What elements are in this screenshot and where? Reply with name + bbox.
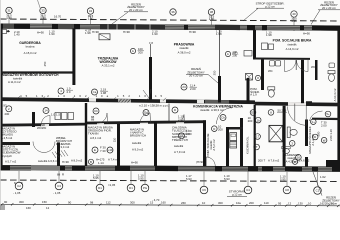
toilet 1 (wc left) [268,87,275,97]
axis circle 31 [6,7,12,13]
big door swing (bath) [288,106,307,126]
svg-text:A 11,0 m2: A 11,0 m2 [8,80,21,84]
axis drop line C6 [203,172,205,187]
magazyn estet label [1,145,21,158]
svg-text:BRUDNYCH: BRUDNYCH [130,133,146,137]
svg-text:160: 160 [161,201,166,205]
door tag circle 14 [43,108,60,117]
right exterior wall [337,26,340,172]
corridor north wall window run [205,100,229,104]
svg-text:C8: C8 [285,188,289,192]
svg-text:Ch: Ch [180,134,184,138]
kuchnia north wall [226,127,243,130]
wc labels [268,65,316,73]
corner wall piece bottom right [326,160,340,167]
top wall dark seg 58-74 [58,24,74,29]
svg-text:A 15,0 m2: A 15,0 m2 [24,51,37,55]
svg-text:10: 10 [308,201,312,205]
tag circle E2 [107,147,113,153]
under-wall text 1.10/1.98 (x219) [216,30,222,37]
svg-text:5.93: 5.93 [224,177,230,181]
stray scan line [38,0,41,9]
interior wall D (x254.5 upper) [253,30,256,60]
axis tick line 33 [42,16,44,29]
lower room wall y142 [0,142,30,145]
svg-text:20 x 20 cm: 20 x 20 cm [129,8,144,12]
top wall window midline 2 [0,27,340,29]
svg-text:A 5,2 m2: A 5,2 m2 [212,139,216,151]
wc sink right [329,63,335,68]
axis drop line C2 [18,171,20,182]
svg-text:12: 12 [46,206,50,210]
svg-text:350: 350 [213,70,217,75]
svg-text:H=90: H=90 [62,160,69,164]
magazyn scierek label [307,126,315,153]
room label GARDEROBA [19,41,41,55]
svg-text:A 7,6 m2: A 7,6 m2 [268,158,280,162]
interior wall B (x150) upper thin [150,44,152,57]
bottom axis circle D2 [127,184,135,192]
bottom exterior wall base band [0,165,340,171]
svg-text:H=90: H=90 [303,32,310,36]
klatka door arc [310,111,323,121]
svg-text:świetlik A 38,3 m2: świetlik A 38,3 m2 [200,108,224,112]
svg-text:200: 200 [5,112,10,116]
svg-text:98: 98 [90,200,94,204]
door tag circle Cb [91,108,99,122]
svg-text:R: R [62,172,64,176]
top exterior wall base band [0,24,340,31]
top wall pier 4 [74,24,80,29]
dim text under axis 34 [88,14,94,20]
corridor south wall mid [85,120,206,124]
svg-text:± 8: ± 8 [149,41,153,45]
top wall pier 5 [184,25,188,30]
svg-text:110: 110 [264,201,269,205]
room label FRESOWNIA [98,56,119,67]
svg-text:34: 34 [89,9,93,13]
door swing at wall B bottom [143,89,151,98]
svg-text:g 12 cm: g 12 cm [232,193,243,197]
svg-text:- 1,05: - 1,05 [53,191,61,195]
svg-text:160: 160 [26,206,31,210]
svg-text:112: 112 [106,201,111,205]
under-wall text 4.10/1.98 [85,29,91,36]
door tag circle Ch [0,0,1,1]
svg-text:200 T: 200 T [258,158,265,162]
bottom axis circle C2 [15,182,23,190]
bottom wall window midline [0,167,340,168]
label rdzen zelbetowy (mid) [186,67,218,83]
kuchnia wall x227.5 [226,127,229,166]
axis tick line 31 [8,16,10,29]
tag circle 8b [255,75,260,80]
top wall strip window dark run [100,24,165,30]
svg-text:MAGAZYN WYROBÓW GOTOWYCH: MAGAZYN WYROBÓW GOTOWYCH [2,72,59,77]
room label PRASOWNIA [174,42,195,54]
room label CHLODNIA [172,125,190,153]
sill text pair x140 [138,174,144,181]
bottom wall pier 6 [215,166,222,171]
svg-text:130: 130 [298,201,303,205]
svg-text:(H=90): (H=90) [196,160,205,164]
dim text under axis 33 [40,14,46,20]
svg-text:H=90: H=90 [131,160,138,164]
svg-text:1.93: 1.93 [1,104,7,108]
bottom wall pier 3 [72,166,85,171]
corridor north wall door gap 2 [288,102,306,106]
tag circle 17 [255,134,261,140]
svg-text:H=90: H=90 [37,31,44,35]
bottom wall pier 11 [332,167,340,172]
room label MAGAZYN CZYSTEGO [1,126,17,139]
lower wall x255 (kuchnia) [254,105,256,167]
svg-text:110: 110 [113,137,117,142]
door swing pom soc [206,157,215,166]
svg-text:D1: D1 [251,111,255,115]
svg-text:20 x 20 cm: 20 x 20 cm [322,6,337,10]
tag circle D5 [212,124,224,131]
axis drop line C4 [247,172,249,187]
svg-text:31: 31 [7,9,11,13]
svg-text:1b: 1b [257,118,261,122]
svg-text:5.93: 5.93 [186,177,192,181]
tag circle 1b [255,117,261,123]
axis circle 38 [208,9,214,15]
svg-text:WC: WC [268,69,273,73]
svg-text:ND: ND [41,123,45,127]
svg-text:A 1,9: A 1,9 [250,93,257,97]
svg-text:5.95: 5.95 [93,176,99,180]
top wall upper edge line [0,24,340,26]
top dashed axis line [0,19,340,21]
bottom axis circle D3 [141,184,149,192]
dim text near kuchnia wall [248,116,253,123]
corridor partition line x169 [168,104,170,122]
wc wall (x302.5) [301,60,304,103]
right rooms wall y118.5 [312,118,340,121]
svg-text:2.00: 2.00 [186,132,192,136]
tag circle 16 [296,155,302,161]
door tag circle A2 200 [225,50,237,57]
svg-text:Cb: Cb [94,109,98,113]
axis circle 34 [87,8,93,14]
top wall dark run 3 (right corner) [312,25,340,30]
sill text pair x320 [320,175,326,179]
toilet 2 (wc right) [328,71,335,82]
lower wall x118.5 [117,124,120,166]
double door swing lower left [33,142,55,153]
svg-text:C3: C3 [57,184,61,188]
svg-text:36: 36 [171,10,175,14]
svg-text:1.98: 1.98 [85,31,91,35]
top wall dark seg 0-14 [3,24,14,29]
room label POM SOCJALNE BIURA [273,39,312,51]
corridor south wall door gap c [140,123,148,125]
svg-text:E: E [94,148,96,152]
axis circle 40 [291,11,297,17]
t30 text [321,120,327,127]
svg-text:A: A [132,49,134,53]
door tag circle Ca [92,87,109,95]
bottom wall pier 2 [60,166,65,171]
svg-text:17: 17 [256,135,260,139]
wc sink 2 [276,61,281,67]
top wall lower edge line [0,28,340,30]
svg-text:88: 88 [91,118,95,122]
svg-text:świetlik: świetlik [179,46,189,50]
svg-text:C4: C4 [246,188,250,192]
pom socjalne label (rotated) [206,133,216,156]
svg-text:A 38,0 m2: A 38,0 m2 [178,51,191,55]
tag circle D6 [312,134,318,140]
bath wall x284 [283,106,286,167]
door tag circle Cb2 [220,115,226,121]
svg-text:świetlik A 6,6 m2: świetlik A 6,6 m2 [38,159,59,163]
bottom wall pier 10 [312,167,318,172]
sill text pair x188 [186,174,192,181]
bottom wall pier 8 [262,166,273,171]
biura furniture rect 1 [262,43,268,50]
interior wall A (x73) [72,28,75,85]
svg-text:200: 200 [248,119,253,123]
svg-text:12: 12 [288,201,292,205]
wc cabin divider [295,60,297,70]
door tag circle D [172,107,178,113]
door tag circle A 100/200 [130,47,144,54]
washer rect 1 [55,113,61,120]
label rdzen zelbetowy (top far right) [311,0,340,24]
svg-text:38: 38 [210,10,214,14]
svg-text:- 4,70: - 4,70 [152,198,160,202]
corridor dim ticks [17,96,166,101]
dim text under axis 31 [6,14,12,20]
svg-text:T: T [256,145,258,149]
left exterior wall [0,24,3,171]
above-wall text cluster d4 [258,158,280,162]
bottom axis circle C8 [283,186,291,194]
axis drop line C3 [58,171,60,182]
svg-text:1.90: 1.90 [152,32,158,36]
svg-text:10: 10 [331,202,335,206]
wc block top wall [255,58,310,60]
svg-text:14: 14 [44,109,48,113]
svg-text:0+: 0+ [312,120,316,124]
small dim 88 pair above C2 [14,181,23,185]
bottom wall lower edge line [0,170,340,171]
dim text under axis 40 [291,16,297,22]
svg-text:A 10,4 m2: A 10,4 m2 [333,88,337,101]
bottom wall pier 1 [0,165,10,170]
tag circle T [254,144,260,150]
svg-text:A 7,4 m2: A 7,4 m2 [108,158,120,162]
svg-text:90: 90 [4,200,8,204]
dim text under axis 38 [209,15,215,21]
room label MAGAZYN BRUDNA [88,126,113,140]
svg-text:D1: D1 [129,186,133,190]
svg-text:2.80 1.20: 2.80 1.20 [329,129,333,141]
svg-text:=1,05: =1,05 [108,183,116,187]
svg-text:A 14,9 m2: A 14,9 m2 [286,47,299,51]
svg-text:250: 250 [43,61,47,66]
svg-text:C6: C6 [202,188,206,192]
svg-text:150: 150 [42,200,47,204]
bottom wall window hatch run [31,165,60,170]
svg-text:1.98: 1.98 [216,32,222,36]
svg-text:TKANIN: TKANIN [88,132,98,136]
door tag circle 24 [181,83,197,90]
strip window mullion gaps [108,24,150,30]
corridor door arc (kuchnia entrance) [217,108,234,125]
interior wall C (x219.5) [218,76,221,103]
lower wall x58.5 [57,142,60,166]
door swing Cb [97,113,107,123]
lower wall x86 [85,103,87,166]
svg-text:B: B [90,160,92,164]
svg-text:2.00: 2.00 [190,87,196,91]
fire hose cabinet [99,34,110,40]
svg-text:H=90: H=90 [123,30,130,34]
bottom second row numbers [26,198,160,210]
top wall pier 3 [52,24,58,29]
tag circle w2 [321,137,327,143]
svg-text:1.5: 1.5 [56,112,60,116]
axis drop line C1 [317,172,319,186]
kitchen fixture rect [230,133,237,141]
svg-text:A 8,0 m2: A 8,0 m2 [71,159,83,163]
tag circle 5 [325,111,331,117]
washer rect 2 [62,113,68,120]
svg-text:W: W [323,138,326,142]
svg-text:200: 200 [249,201,254,205]
axis tick line 38 [211,16,213,30]
svg-text:brudna: brudna [26,44,35,48]
wc wall (x262.5) [261,60,264,91]
bottom wall pier 5 [155,166,178,171]
bath door leaf [294,104,296,121]
svg-text:10a: 10a [236,201,241,205]
interior wall C thin upper line [219,30,221,77]
corridor south wall left [0,123,85,127]
under-wall text 1.10/1.98 (x60) [49,30,55,37]
top wall pier 8 [300,25,304,30]
sill text pair x282 [280,175,286,182]
bottom wall upper edge line [0,166,340,167]
svg-text:świetlik: świetlik [174,144,184,148]
dim text near door D [178,115,184,122]
svg-text:5.95: 5.95 [138,176,144,180]
wc door swing 2 [297,60,309,72]
svg-text:33: 33 [41,9,45,13]
svg-text:24: 24 [182,85,186,89]
sill text pair x225 [224,174,230,181]
lower wall x155.5 [154,122,157,166]
lower wall x33.5 [32,112,35,127]
corridor north wall (east run) [255,102,340,107]
top wall pier 2 [14,24,30,29]
lazienka label [285,153,299,163]
tag circle 3 [289,141,295,147]
lower wall x204.5 [203,120,206,166]
corner smudge [0,205,5,210]
svg-text:PG: PG [143,186,147,190]
wc partition wall x316 [315,60,318,80]
svg-text:L10: L10 [108,148,113,152]
svg-text:C1: C1 [316,189,320,193]
sill text pair x95 [93,173,99,180]
scan edge left [0,0,1,210]
corridor north wall (west run) [0,97,255,104]
axis drop line D3 [144,171,146,184]
room label MAGAZYN NAKRYC [130,127,146,151]
bottom axis circle C3 [55,182,63,190]
svg-text:n 2.10 + 138,58 m p.p.t.: n 2.10 + 138,58 m p.p.t. [139,103,169,107]
entrance door dot [7,30,9,32]
svg-text:260: 260 [181,201,186,205]
svg-text:280: 280 [317,131,321,136]
corrN door gap x89-96 [89,98,96,101]
svg-text:D4: D4 [144,111,148,115]
top wall pier 6 [247,25,255,30]
bottom wall pier 4 [115,166,130,171]
bath sink [282,146,290,153]
corridor south wall door gap d [176,122,184,124]
bottom dimension ticks [1,203,339,207]
wc sink 1 [270,61,275,67]
interior wall B (x150) [149,57,152,100]
tag circle 8 [268,108,287,115]
svg-text:H=90: H=90 [189,30,196,34]
corridor south wall door gap b [97,123,104,125]
pom scier wall x248 [247,78,250,103]
door swing D [176,115,184,123]
svg-text:B: B [294,160,296,164]
svg-text:A: A [227,52,229,56]
svg-text:300: 300 [130,201,135,205]
door swing 14 [42,116,51,125]
toilet 3 (bath) [287,127,297,138]
tag circle B left [88,159,93,164]
sill text 88 (x60) [57,172,64,176]
corridor south wall door gap a [41,124,49,126]
corridor label KOMUNIKACJA [193,105,243,112]
svg-text:czystych: czystych [1,154,12,158]
svg-text:A 3,4 m2: A 3,4 m2 [58,145,70,149]
tag circle B right [292,159,297,164]
svg-text:300: 300 [19,200,24,204]
under-wall text 1.10/1.40 [14,30,20,37]
svg-text:1.14: 1.14 [98,161,104,165]
bottom wall pier 9 [285,166,302,171]
wezel brudnych label [56,136,72,149]
axis drop line D1 [99,171,101,184]
svg-text:A 7,9 m2: A 7,9 m2 [174,150,186,154]
dim text pair x57 above dashed [54,14,62,18]
biura furniture rect 2 [269,44,274,50]
axis drop line D2 [130,171,132,184]
svg-text:świetlik: świetlik [132,141,142,145]
corrN door gap x197-204 [197,100,204,104]
axis tick line 34 [90,16,92,30]
svg-text:95: 95 [278,201,282,205]
top wall dark run 2 [215,25,240,30]
shaft xbox (bath) [269,125,283,141]
svg-text:D: D [213,127,215,131]
svg-text:Cb: Cb [221,116,225,120]
bottom dimension line [0,204,340,206]
axis drop line C8 [286,172,288,186]
pom scier text (x248) [250,87,260,97]
